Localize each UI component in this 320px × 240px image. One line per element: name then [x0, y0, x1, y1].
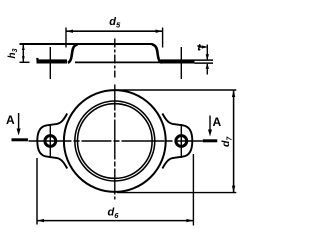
plan view: vertical centerline — [114, 85, 116, 200]
dimension h3: vertical dimension line with arrows — [22, 44, 25, 62]
dimension d5: left extension line — [65, 28, 67, 48]
dimension d5: dimension line with arrows — [66, 30, 163, 33]
section view: brim left end lip — [36, 58, 38, 60]
section view: left bolt hole centerline — [49, 47, 51, 79]
svg-text:A: A — [213, 115, 222, 129]
plan view: right hole vertical centerline — [180, 124, 182, 158]
section view: right S-bend of sheet — [152, 44, 162, 62]
plan view: raised bead outer circle — [76, 102, 153, 179]
section marker A left: viewing arrow — [17, 113, 21, 136]
section view: right brim sheet bar — [161, 59, 195, 63]
dimension t: thin extension lines of sheet thickness — [195, 60, 214, 63]
section view: right bolt hole centerline — [180, 47, 182, 79]
dimension d6: dimension line with arrows — [37, 219, 193, 222]
dimension d6: left extension line — [36, 158, 38, 225]
plan view: right bolt hole — [176, 136, 187, 147]
dimension d6: right extension line — [192, 154, 194, 226]
dimension d5: right extension line — [162, 28, 164, 48]
plan view: raised bead ring white divider — [76, 102, 153, 179]
svg-text:A: A — [6, 113, 15, 127]
plan view: horizontal centerline — [29, 140, 203, 142]
plan view: left ear outline — [37, 114, 67, 169]
dimension t: lower dimension line with up arrow — [206, 63, 209, 74]
section marker A right: viewing arrow — [208, 116, 212, 137]
section view: top plate line with h3 extension — [20, 43, 153, 45]
svg-text:d7: d7 — [220, 136, 234, 147]
plan view: right ear outline — [162, 114, 192, 169]
section marker A left: thick cut line — [12, 138, 29, 141]
plan view: outer flange circle — [64, 90, 166, 192]
dimension d7: dimension line with arrows — [232, 90, 235, 193]
section view: left S-bend of sheet — [68, 44, 78, 62]
dimension d7: top extension line — [117, 89, 236, 91]
section marker A right: thick cut line — [203, 139, 218, 142]
dimension t: upper dimension line with down arrow — [206, 45, 209, 61]
section view: vertical centerline — [114, 39, 116, 78]
svg-text:d5: d5 — [109, 16, 121, 30]
svg-text:d6: d6 — [108, 207, 120, 221]
svg-text:h3: h3 — [7, 48, 19, 58]
section view: left brim sheet bar — [37, 59, 68, 63]
plan view: left bolt hole — [45, 136, 56, 147]
dimension t: leader arrow and label t — [197, 44, 207, 50]
plan view: left hole vertical centerline — [49, 124, 51, 158]
section view: background interior line under dome — [75, 61, 163, 63]
dimension h3: lower extension line — [20, 61, 30, 63]
dimension d7: bottom extension line — [117, 192, 236, 194]
